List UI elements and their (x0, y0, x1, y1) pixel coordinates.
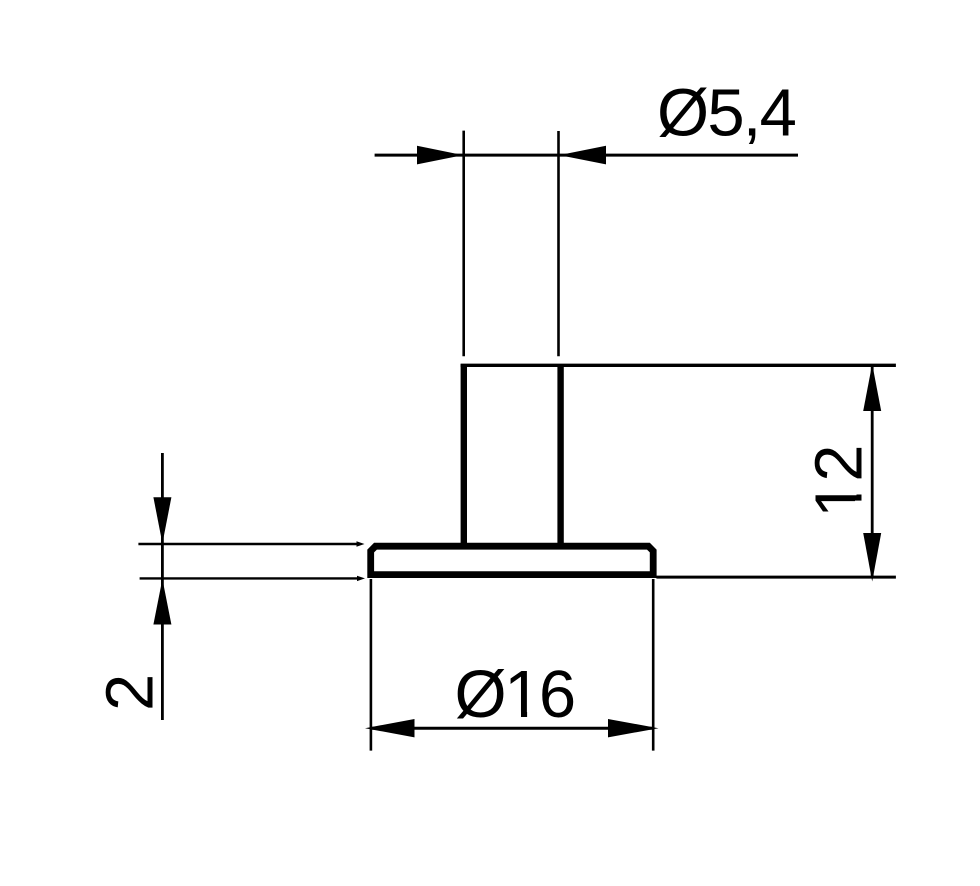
svg-text:2: 2 (92, 674, 167, 711)
dimension 12 : dimension line (871, 365, 874, 578)
dimension Ø16 : dimension line (371, 727, 653, 730)
svg-text:12: 12 (802, 445, 877, 518)
stem right edge (557, 364, 563, 545)
stem left edge (461, 364, 467, 545)
dimension 2 : bottom extension tiny arrow (357, 576, 365, 581)
stem top edge + extension line to 12 dimension (461, 364, 896, 367)
disc outline (flange Ø16, thickness 2) with chamfered top corners (371, 546, 654, 574)
svg-text:Ø5,4: Ø5,4 (657, 76, 796, 151)
dimension 12 : top arrow (points up) (863, 364, 881, 411)
dimension Ø5,4 : left extension line (462, 131, 465, 357)
dimension 12 : bottom arrow (points down) (863, 533, 881, 582)
dimension Ø16 : right arrow (points right) (608, 719, 659, 737)
dimension 12 : bottom extension line (656, 576, 896, 579)
white patch removing foot serif of digit 1 (right) (527, 711, 542, 719)
stem outline (cylinder Ø5,4 side view) (464, 364, 561, 545)
dimension 2 : lower arrow (points up) (153, 579, 171, 625)
white patch removing foot serif of rotated digit 1 (upper) (855, 483, 864, 495)
dimension Ø5,4 : left arrow (points right) (417, 146, 463, 165)
dimension 2 : upper arrow (points down) (153, 497, 171, 543)
dimension 2 : top extension line (138, 543, 358, 545)
dimension 2 : top extension tiny arrow (357, 541, 365, 546)
dimension 2 : bottom extension line (140, 577, 358, 579)
dimension Ø16 : right extension line (652, 579, 655, 751)
dimension Ø16 : left arrow (points left) (365, 719, 415, 737)
dimension Ø16 : left extension line (370, 579, 373, 751)
svg-text:Ø16: Ø16 (455, 657, 574, 732)
dimension Ø5,4 : dimension line (375, 154, 798, 157)
dimension Ø5,4 : right arrow (points left) (559, 146, 606, 165)
white patch removing foot serif of rotated digit 1 (lower) (855, 501, 864, 514)
white patch removing foot serif of digit 1 (left) (506, 711, 521, 719)
dimension 2 : dimension line (161, 453, 164, 720)
dimension Ø5,4 : right extension line (557, 131, 560, 356)
